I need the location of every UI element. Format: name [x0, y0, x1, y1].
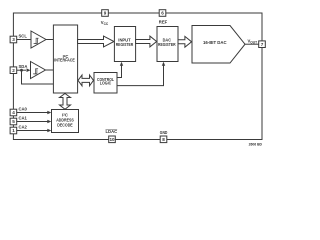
block texts [54, 38, 226, 128]
wire arrow into buffer A2 [27, 68, 31, 72]
pin 9 VCC [102, 10, 109, 17]
wire buffer to interface [46, 39, 53, 41]
svg-text:3: 3 [12, 37, 15, 42]
svg-text:7: 7 [261, 42, 264, 47]
bidi bus arrow interface to control logic [78, 75, 94, 86]
pin 3 SCL [10, 36, 17, 43]
svg-text:2: 2 [12, 68, 15, 73]
svg-text:1: 1 [12, 128, 15, 133]
pin 10 LDAC [109, 136, 116, 143]
wire DAC output to VOUT pin [245, 43, 259, 45]
bidi bus arrow interface to address decode [60, 94, 71, 110]
pin 7 VOUT [259, 41, 266, 48]
pin 1 CA2 [10, 127, 17, 134]
block I2C INTERFACE [53, 25, 77, 93]
wire CA2 [17, 130, 48, 132]
block CONTROL LOGIC [94, 73, 117, 94]
pin 4 CA0 [10, 109, 17, 116]
svg-text:INTERFACE: INTERFACE [54, 58, 75, 63]
pin 6 REF [159, 10, 166, 17]
svg-text:CA2: CA2 [19, 125, 28, 130]
hysteresis glyph A1 [34, 38, 39, 43]
svg-text:SCL: SCL [19, 34, 28, 39]
svg-text:DECODE: DECODE [57, 122, 73, 127]
wire SDA return path [22, 70, 54, 84]
svg-text:REF: REF [159, 20, 168, 25]
wire CA0 [17, 112, 48, 114]
svg-text:GND: GND [160, 130, 168, 135]
svg-text:5: 5 [12, 119, 15, 124]
pin 8 GND [160, 136, 167, 143]
svg-text:VCC: VCC [101, 20, 109, 26]
svg-text:9: 9 [104, 11, 107, 16]
bus arrow DAC register to DAC [178, 36, 192, 47]
wire control logic to DAC register [117, 66, 164, 86]
svg-text:2606 BD: 2606 BD [249, 143, 263, 147]
svg-text:SDA: SDA [19, 64, 28, 69]
svg-text:REGISTER: REGISTER [116, 42, 134, 47]
svg-text:8: 8 [162, 137, 165, 142]
block DAC REGISTER [157, 27, 178, 62]
svg-text:10: 10 [109, 137, 115, 142]
pin name labels [19, 20, 258, 136]
wire SCL pin to buffer [17, 39, 31, 41]
bus arrow input register to DAC register [136, 36, 157, 47]
svg-text:VOUT: VOUT [248, 39, 258, 45]
svg-text:REGISTER: REGISTER [158, 42, 176, 47]
wire CA1 [17, 121, 48, 123]
pin 5 CA1 [10, 118, 17, 125]
wire SDA pin to node [17, 69, 26, 71]
svg-text:16-BIT DAC: 16-BIT DAC [203, 40, 227, 45]
svg-text:6: 6 [161, 11, 164, 16]
block I2C ADDRESS DECODE [52, 110, 79, 133]
wire control logic to input register [117, 66, 122, 78]
hysteresis glyph A2 [33, 69, 38, 74]
bus arrow interface to input register [78, 36, 114, 47]
DAC block (pentagon) 16-BIT DAC [192, 26, 245, 64]
buffer A2 (SDA schmitt) [31, 62, 46, 79]
pin 2 SDA [10, 67, 17, 74]
svg-text:CA0: CA0 [19, 107, 28, 112]
wire buffer A2 to interface [46, 69, 54, 71]
node SDA junction [20, 69, 23, 72]
svg-text:4: 4 [12, 110, 15, 115]
svg-text:CA1: CA1 [19, 116, 28, 121]
buffer A1 (SCL schmitt) [31, 31, 46, 48]
block INPUT REGISTER [114, 27, 135, 62]
svg-text:LOGIC: LOGIC [100, 81, 111, 86]
svg-text:LDAC: LDAC [106, 129, 118, 134]
